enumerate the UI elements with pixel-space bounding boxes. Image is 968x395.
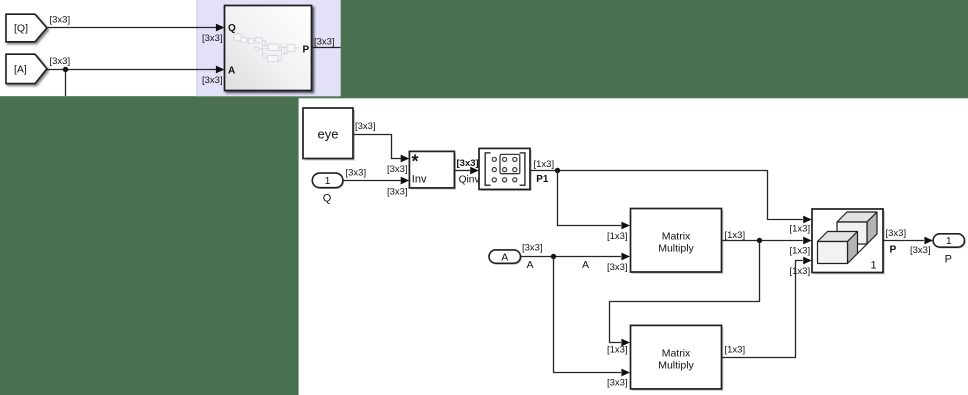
wire Q to product in2 <box>343 180 401 182</box>
svg-text:P: P <box>945 253 952 265</box>
svg-text:[3x3]: [3x3] <box>522 243 543 254</box>
svg-text:[3x3]: [3x3] <box>50 15 71 26</box>
svg-text:[3x3]: [3x3] <box>607 262 628 273</box>
matrix multiply 1 block <box>631 209 724 274</box>
subsystem content preview <box>234 34 300 62</box>
svg-text:Q: Q <box>228 23 236 34</box>
svg-text:P: P <box>303 45 310 56</box>
product block Inv <box>409 151 456 189</box>
svg-text:[3x3]: [3x3] <box>50 56 71 67</box>
svg-text:Qinv: Qinv <box>459 175 481 186</box>
svg-text:A: A <box>228 66 235 77</box>
wire A to subsystem <box>47 69 216 71</box>
junction on A wire <box>63 67 68 72</box>
svg-text:[3x3]: [3x3] <box>886 228 907 239</box>
svg-text:[A]: [A] <box>14 64 27 76</box>
svg-text:[1x3]: [1x3] <box>790 266 811 277</box>
svg-text:[1x3]: [1x3] <box>607 231 628 242</box>
wire MM1 out down to MM2 in1 <box>610 241 760 343</box>
svg-text:[1x3]: [1x3] <box>725 345 746 356</box>
From block [Q] <box>6 14 47 42</box>
svg-text:1: 1 <box>325 175 331 187</box>
svg-text:[3x3]: [3x3] <box>457 158 479 169</box>
top model screenshot background <box>0 0 341 96</box>
svg-text:[3x3]: [3x3] <box>346 168 367 179</box>
svg-text:[1x3]: [1x3] <box>790 224 811 235</box>
svg-text:[3x3]: [3x3] <box>355 121 376 132</box>
svg-text:[3x3]: [3x3] <box>202 75 223 86</box>
wire eye to product in1 <box>354 135 401 159</box>
svg-text:[3x3]: [3x3] <box>607 377 628 388</box>
selector block <box>479 148 532 191</box>
svg-text:eye: eye <box>318 127 339 142</box>
concatenate block <box>812 209 885 274</box>
eye block <box>303 108 355 161</box>
svg-text:1: 1 <box>946 235 952 247</box>
matrix multiply 2 block <box>631 325 724 390</box>
wire MM1 out to concat in2 <box>722 240 803 242</box>
svg-text:[1x3]: [1x3] <box>790 246 811 257</box>
svg-text:[1x3]: [1x3] <box>607 345 628 356</box>
inport oval A <box>489 250 522 265</box>
svg-text:Q: Q <box>323 193 332 205</box>
concat icon front box <box>818 232 858 242</box>
wire concat to outport <box>883 240 924 242</box>
svg-text:[Q]: [Q] <box>14 23 28 35</box>
svg-text:[3x3]: [3x3] <box>202 33 223 44</box>
svg-text:[3x3]: [3x3] <box>387 164 408 175</box>
svg-text:[3x3]: [3x3] <box>910 245 931 256</box>
svg-text:[3x3]: [3x3] <box>314 37 335 48</box>
wire A down to MM2 in2 <box>554 257 622 373</box>
svg-text:A: A <box>527 259 534 271</box>
wire A to MM1 in2 <box>521 256 622 258</box>
svg-text:Inv: Inv <box>412 174 427 186</box>
subsystem block <box>225 6 312 91</box>
svg-text:Multiply: Multiply <box>658 243 694 255</box>
svg-text:Matrix: Matrix <box>662 347 691 359</box>
svg-text:P: P <box>890 245 897 256</box>
selection highlight around subsystem <box>196 0 340 96</box>
svg-text:*: * <box>412 151 419 171</box>
wire P1 down to MM1 in1 <box>558 171 622 226</box>
svg-text:[3x3]: [3x3] <box>387 187 408 198</box>
svg-text:P1: P1 <box>536 174 549 185</box>
svg-text:[1x3]: [1x3] <box>534 159 555 170</box>
svg-text:Multiply: Multiply <box>658 360 694 372</box>
svg-text:A: A <box>501 251 508 263</box>
junction A <box>551 254 556 259</box>
From block [A] <box>6 54 47 83</box>
wire selector output to concat in1 <box>530 171 803 220</box>
svg-text:[1x3]: [1x3] <box>725 230 746 241</box>
svg-text:A: A <box>582 259 589 271</box>
svg-text:1: 1 <box>870 259 876 271</box>
wire Q to subsystem <box>47 27 216 29</box>
inport oval 1 (Q) <box>312 173 344 189</box>
outport oval 1 (P) <box>933 234 966 249</box>
wire product to selector <box>455 170 471 172</box>
subsystem view screenshot background <box>299 98 968 395</box>
junction P1 <box>555 168 560 173</box>
junction MM1 out <box>757 238 762 243</box>
concat icon back box <box>818 212 878 264</box>
wire MM2 out to concat in3 <box>722 261 803 358</box>
wire from P port <box>312 47 341 49</box>
svg-text:Matrix: Matrix <box>662 230 691 242</box>
wire A branch down (cropped) <box>65 70 67 97</box>
